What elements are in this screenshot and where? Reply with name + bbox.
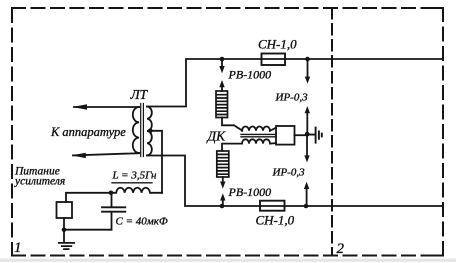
fuse SN-1,0 (top)	[262, 54, 286, 66]
connector arrows (top, to RV-1000)	[221, 59, 223, 67]
scan artifact band	[0, 259, 456, 262]
transformer LT core	[141, 104, 144, 157]
transformer LT secondary (right) winding	[147, 107, 152, 156]
wire: junction to power box	[66, 193, 111, 202]
svg-text:РВ-1000: РВ-1000	[228, 185, 272, 199]
svg-text:1: 1	[14, 240, 22, 256]
svg-text:2: 2	[337, 241, 345, 257]
amplifier power supply box	[57, 202, 73, 218]
connector arrows (bottom, from RV-1000)	[222, 177, 224, 182]
fuse SN-1,0 (bottom)	[260, 201, 285, 211]
inductor L	[111, 188, 162, 193]
wire: DK output	[295, 134, 307, 136]
relay winding RV-1000 (top, hatched box)	[216, 91, 228, 118]
node: ground junction	[62, 227, 67, 232]
node: bottom wire left junction	[220, 204, 225, 209]
svg-text:L = 3,5Гн: L = 3,5Гн	[112, 170, 158, 182]
DK lower coil	[222, 139, 276, 151]
node: top wire right junction	[305, 57, 310, 62]
wire: tap to filter	[150, 131, 162, 193]
wire: bottom line from transformer to right border	[147, 156, 443, 207]
svg-text:ИР-0,3: ИР-0,3	[272, 167, 306, 179]
wire: junction to capacitor bottom	[64, 229, 112, 231]
ground	[59, 230, 74, 249]
wire: top line from transformer to right border	[147, 59, 443, 107]
node: transformer tap junction	[148, 129, 153, 134]
dashed divider between unit 1 and unit 2	[331, 8, 333, 256]
DK core	[241, 134, 276, 136]
svg-text:РВ-1000: РВ-1000	[228, 68, 272, 82]
earth (sideways ground)	[307, 128, 322, 143]
relay winding RV-1000 (bottom, hatched box)	[217, 151, 229, 177]
wire with arrow to apparatus (lower)	[73, 153, 139, 155]
svg-text:усилителя: усилителя	[14, 176, 65, 188]
connector arrows IR-0,3 (bottom)	[306, 134, 308, 156]
transformer LT primary (left) winding	[133, 107, 139, 153]
connector arrows IR-0,3 (top)	[307, 59, 309, 77]
svg-text:ДК: ДК	[206, 129, 227, 144]
svg-text:К аппаратуре: К аппаратуре	[50, 125, 126, 139]
DK upper coil	[242, 127, 276, 131]
svg-text:ЛТ: ЛТ	[130, 87, 149, 102]
svg-text:С = 40мкФ: С = 40мкФ	[116, 216, 168, 228]
wire: RV top box to DK upper coil	[222, 118, 242, 131]
capacitor C	[102, 193, 125, 230]
DK armature block	[276, 126, 295, 145]
svg-text:СН-1,0: СН-1,0	[258, 37, 297, 52]
node: bottom wire right junction	[304, 204, 309, 209]
node: inductor/capacitor junction	[109, 191, 114, 196]
node: top wire left junction	[220, 57, 225, 62]
svg-text:ИР-0,3: ИР-0,3	[275, 92, 309, 104]
svg-text:СН-1,0: СН-1,0	[256, 213, 295, 228]
wire with arrow to apparatus (upper)	[74, 106, 139, 108]
wire: box to ground node	[63, 218, 65, 230]
node: earth junction	[305, 132, 310, 137]
